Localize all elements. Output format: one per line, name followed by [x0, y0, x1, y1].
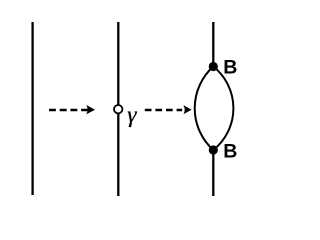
svg-text:B: B	[223, 141, 237, 163]
svg-text:γ: γ	[127, 102, 137, 128]
svg-text:B: B	[223, 57, 237, 79]
